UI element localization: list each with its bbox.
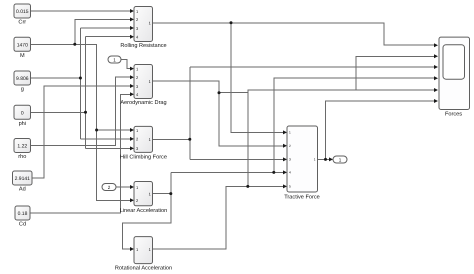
svg-text:g: g: [21, 87, 24, 93]
junction on g wire: [79, 77, 82, 80]
arrowhead Aerodynamic Drag port 4: [130, 92, 134, 96]
wire Hill Climbing Force vertical trunk: [189, 67, 191, 159]
svg-text:Aerodynamic Drag: Aerodynamic Drag: [120, 99, 166, 106]
junction on Hill Climbing Force output wire: [188, 138, 191, 141]
svg-text:Cd: Cd: [19, 221, 26, 228]
subsystem Hill Climbing Force: [120, 126, 167, 160]
wire Tractive Force output to outport 1: [318, 158, 330, 160]
arrowhead outport 1: [329, 157, 333, 161]
svg-text:4: 4: [289, 171, 291, 175]
svg-text:1.22: 1.22: [17, 144, 27, 150]
inport 1: [108, 56, 121, 63]
arrowhead Rolling Resistance port 4: [130, 35, 134, 39]
arrowhead Rotational Acceleration input: [130, 247, 134, 251]
wire Hill Climbing Force branch to Forces port 3: [190, 66, 435, 68]
svg-text:1470: 1470: [17, 42, 28, 48]
subsystem Rolling Resistance: [120, 7, 166, 50]
subsystem Tractive Force: [284, 126, 320, 201]
svg-text:phi: phi: [19, 120, 26, 127]
wire Crr output to Rolling Resistance port 1: [31, 10, 131, 12]
svg-text:Tractive Force: Tractive Force: [284, 194, 320, 201]
wire phi vertical trunk: [85, 37, 87, 149]
svg-text:2: 2: [289, 144, 291, 148]
wire M branch to Hill Climbing Force port 1: [97, 129, 131, 131]
arrowhead Rolling Resistance port 1: [130, 9, 134, 13]
inport 2: [102, 184, 116, 191]
svg-text:2.9141: 2.9141: [15, 176, 31, 182]
arrowhead Forces port 1: [434, 43, 438, 47]
wire M output trunk down to Linear Acceleration port 2: [31, 44, 131, 200]
wire inport 1 to Aerodynamic Drag port 1: [121, 60, 131, 69]
wire g vertical trunk: [79, 28, 81, 139]
wire Hill Climbing Force output: [153, 138, 190, 140]
svg-text:Rolling Resistance: Rolling Resistance: [120, 42, 166, 49]
wire phi branch to Hill Climbing Force port 3: [86, 147, 131, 149]
wire Hill Climbing Force branch to Tractive Force port 3: [190, 158, 284, 160]
arrowhead Forces port 6: [434, 99, 438, 103]
wire M branch to Rolling Resistance port 2: [75, 19, 131, 44]
svg-text:9.806: 9.806: [16, 76, 29, 82]
wire g branch to Hill Climbing Force port 2: [80, 138, 130, 140]
constant rho: [14, 139, 31, 161]
arrowhead Tractive Force port 5: [283, 184, 287, 188]
svg-text:Rotational Acceleration: Rotational Acceleration: [115, 265, 172, 272]
arrowhead Tractive Force port 2: [283, 144, 287, 148]
junction on Rolling Resistance output wire: [230, 21, 233, 24]
arrowhead Aerodynamic Drag port 2: [130, 75, 134, 79]
wire g output: [31, 77, 81, 79]
constant Ad: [13, 171, 33, 193]
arrowhead Forces port 4: [434, 76, 438, 80]
subsystem Aerodynamic Drag: [120, 65, 166, 107]
wire riser to Forces port 2: [356, 56, 434, 90]
junction on Linear Acceleration output wire: [169, 192, 172, 195]
arrowhead Aerodynamic Drag port 1: [130, 67, 134, 71]
junction on phi wire: [84, 111, 87, 114]
svg-text:Hill Climbing Force: Hill Climbing Force: [120, 154, 167, 161]
wire Ad output to Aerodynamic Drag port 3: [32, 86, 131, 178]
svg-text:0.18: 0.18: [18, 211, 28, 217]
wire Linear Acceleration output: [153, 193, 171, 195]
arrowhead Aerodynamic Drag port 3: [130, 84, 134, 88]
svg-text:0.015: 0.015: [16, 9, 29, 15]
svg-text:Linear Acceleration: Linear Acceleration: [120, 207, 168, 214]
constant Crr: [14, 4, 31, 26]
scope Forces: [439, 37, 470, 117]
arrowhead Linear Acceleration port 1: [130, 185, 134, 189]
svg-text:3: 3: [289, 158, 291, 162]
constant phi: [14, 105, 31, 127]
wire Aerodynamic Drag branch stub to Forces port 2 riser: [219, 92, 248, 94]
subsystem Rotational Acceleration: [115, 237, 172, 272]
arrowhead Hill Climbing Force port 3: [130, 146, 134, 150]
arrowhead Tractive Force port 3: [283, 157, 287, 161]
svg-text:Forces: Forces: [445, 112, 462, 118]
arrowhead Hill Climbing Force port 2: [130, 137, 134, 141]
arrowhead Tractive Force port 1: [283, 130, 287, 134]
svg-text:M: M: [20, 53, 25, 59]
svg-text:1: 1: [339, 158, 342, 163]
wire Linear Acceleration branch to Rotational Acceleration input: [122, 172, 171, 249]
wire Rolling Resistance output to Forces port 1: [153, 23, 435, 45]
svg-text:5: 5: [289, 185, 291, 189]
svg-text:Crr: Crr: [18, 20, 26, 26]
svg-text:0: 0: [21, 110, 24, 116]
svg-text:1: 1: [113, 58, 116, 63]
junction on Aerodynamic Drag trunk: [218, 91, 221, 94]
wire Rotational Acceleration output to Tractive Force port 5: [153, 186, 284, 249]
wire phi output: [31, 111, 86, 113]
arrowhead Rolling Resistance port 2: [130, 17, 134, 21]
svg-text:2: 2: [108, 185, 111, 190]
junction on Tractive Force port 5 wire: [246, 185, 249, 188]
arrowhead Forces port 3: [434, 65, 438, 69]
wire inport 2 to Linear Acceleration port 1: [116, 186, 131, 188]
junction on M trunk for Hill Climbing Force branch: [95, 129, 98, 132]
wire Rotational Acceleration branch to Forces port 5: [248, 90, 435, 186]
outport 1: [333, 156, 347, 163]
junction on M wire for Rolling Resistance branch: [73, 43, 76, 46]
wire Tractive Force branch to Forces port 6: [326, 101, 435, 159]
wire Linear Acceleration branch to Tractive Force port 4: [171, 171, 284, 173]
svg-text:rho: rho: [18, 153, 26, 160]
arrowhead Tractive Force port 4: [283, 170, 287, 174]
arrowhead Forces port 2: [434, 54, 438, 58]
junction on Tractive Force output wire: [324, 158, 327, 161]
wire Cd output to Aerodynamic Drag port 4: [30, 94, 131, 213]
wire Linear Acceleration branch to Forces port 4: [274, 78, 435, 172]
constant g: [14, 71, 31, 93]
arrowhead Hill Climbing Force port 1: [130, 128, 134, 132]
arrowhead Rolling Resistance port 3: [130, 26, 134, 30]
svg-text:1: 1: [314, 158, 316, 162]
constant M: [14, 37, 31, 59]
wire g branch to Rolling Resistance port 3: [80, 27, 130, 29]
arrowhead Linear Acceleration port 2: [130, 198, 134, 202]
junction on Tractive Force port 4 wire: [272, 171, 275, 174]
svg-text:1: 1: [289, 131, 291, 135]
wire Aerodynamic Drag output to Tractive Force port 2: [153, 81, 284, 146]
arrowhead Forces port 5: [434, 88, 438, 92]
svg-text:Ad: Ad: [19, 186, 26, 193]
constant Cd: [15, 206, 30, 228]
subsystem Linear Acceleration: [120, 182, 168, 215]
wire rho output to Aerodynamic Drag port 2: [31, 77, 131, 145]
wire phi branch to Rolling Resistance port 4: [86, 36, 131, 38]
wire Rolling Resistance branch to Tractive Force port 1: [231, 23, 284, 133]
